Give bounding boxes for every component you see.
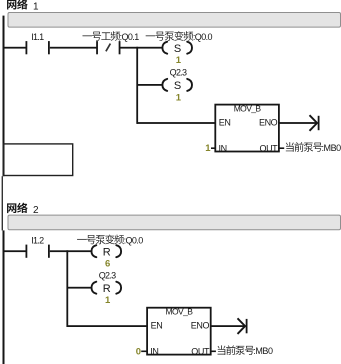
svg-text:ENO: ENO	[259, 117, 278, 127]
svg-text:R: R	[103, 283, 111, 295]
svg-text:1: 1	[33, 2, 39, 13]
ENO output wire (network 1)	[279, 122, 317, 124]
wire: I1.2 to coil branch	[50, 250, 92, 252]
network 1 comment bar	[8, 13, 341, 28]
network 2 comment bar	[8, 215, 341, 230]
branch junction vertical wire (network 1)	[136, 47, 138, 124]
svg-text::MB0: :MB0	[322, 143, 341, 153]
wire: rail to contact I1.2	[4, 250, 26, 252]
svg-text::Q0.0: :Q0.0	[193, 32, 213, 42]
value 1 at IN input (network 1)	[205, 143, 211, 154]
branch junction vertical wire (network 2)	[66, 250, 68, 327]
wire: branch to MOV_B EN (network 2)	[67, 325, 147, 327]
ENO output wire (network 2)	[211, 325, 246, 327]
wire: NC contact to coil branch	[120, 47, 163, 49]
wire: I1.1 to NC contact	[50, 47, 97, 49]
OUT tick wire (network 1)	[279, 147, 284, 149]
wire: branch to MOV_B EN (network 1)	[137, 122, 215, 124]
svg-text:MOV_B: MOV_B	[166, 307, 194, 317]
svg-text:2: 2	[33, 205, 39, 216]
svg-text:Q2.3: Q2.3	[170, 68, 187, 78]
operand 当前泵号:MB0 (network 1)	[286, 142, 341, 153]
coil R 一号泵变频:Q0.0	[77, 235, 143, 259]
MOV_B box U2 (network 2)	[147, 307, 211, 357]
IN input tick wire (network 2)	[141, 351, 147, 353]
svg-text::Q0.0: :Q0.0	[124, 235, 144, 245]
open branch arrow (network 2)	[238, 318, 248, 334]
svg-text:I1.1: I1.1	[31, 32, 44, 42]
value 0 at IN input (network 2)	[136, 346, 141, 357]
contact I1.1 (normally open)	[26, 32, 50, 54]
svg-text:1: 1	[205, 143, 211, 154]
contact I1.2 (normally open)	[26, 235, 50, 257]
svg-text:MOV_B: MOV_B	[234, 104, 262, 114]
svg-text:IN: IN	[219, 143, 227, 153]
svg-text:1: 1	[176, 55, 182, 66]
contact 一号工频:Q0.1 (normally closed)	[82, 31, 139, 54]
wire: rail to contact I1.1	[4, 47, 26, 49]
coil S Q2.3	[162, 68, 192, 93]
svg-text:S: S	[174, 43, 181, 55]
network 1 left power rail	[3, 16, 5, 177]
wire: branch to coil R Q2.3	[67, 287, 92, 289]
IN input tick wire (network 1)	[211, 147, 215, 149]
value 1 under S coil Q0.0	[176, 55, 182, 66]
open branch arrow (network 1)	[310, 115, 320, 131]
network 2 title	[7, 203, 39, 216]
wire: branch to coil S Q2.3	[137, 84, 162, 86]
svg-text:EN: EN	[151, 321, 163, 331]
value 6 under R coil Q0.0	[105, 259, 110, 270]
MOV_B box U1 (network 1)	[215, 104, 279, 154]
separator thin line between networks	[2, 176, 3, 230]
svg-text::Q0.1: :Q0.1	[120, 32, 140, 42]
svg-text:6: 6	[105, 259, 110, 270]
svg-text:IN: IN	[150, 347, 158, 357]
svg-text:R: R	[103, 246, 111, 258]
value 1 under S coil Q2.3	[176, 92, 182, 103]
empty selection box	[3, 144, 72, 176]
svg-text:1: 1	[176, 92, 182, 103]
svg-text:Q2.3: Q2.3	[99, 270, 116, 280]
network 1 title	[7, 0, 39, 13]
coil R Q2.3	[92, 270, 122, 295]
operand 当前泵号:MB0 (network 2)	[218, 345, 273, 356]
coil S 一号泵变频:Q0.0	[146, 31, 213, 55]
OUT tick wire (network 2)	[211, 351, 216, 353]
svg-text:OUT: OUT	[191, 347, 210, 357]
svg-text:I1.2: I1.2	[31, 235, 44, 245]
svg-text:ENO: ENO	[191, 321, 210, 331]
network 2 left power rail	[3, 230, 5, 364]
svg-text:EN: EN	[219, 117, 231, 127]
svg-text:0: 0	[136, 346, 141, 357]
svg-text:OUT: OUT	[259, 143, 278, 153]
svg-text:1: 1	[105, 295, 111, 306]
svg-text:S: S	[174, 80, 181, 92]
value 1 under R coil Q2.3	[105, 295, 111, 306]
svg-text::MB0: :MB0	[253, 346, 273, 356]
